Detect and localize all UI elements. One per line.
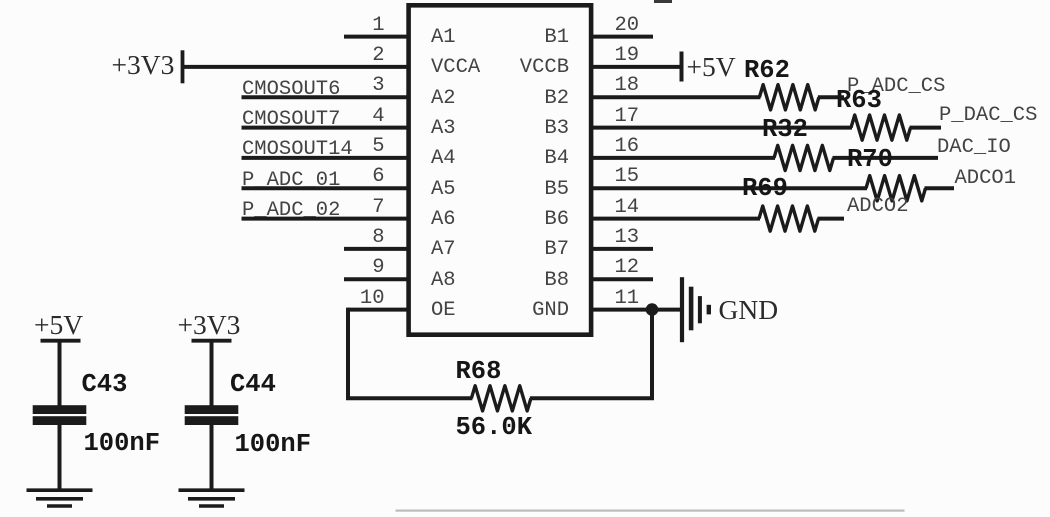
net label P_ADC_CS bbox=[847, 77, 945, 98]
wire pin 18 to R62 bbox=[591, 95, 760, 99]
pin number 3 bbox=[372, 76, 384, 97]
pin name A1 bbox=[431, 28, 456, 49]
wire pin 14 to resistor bbox=[591, 217, 760, 221]
power label +3V3 (pin 2) bbox=[112, 51, 175, 79]
wire C44 bottom bbox=[210, 425, 214, 491]
capacitor C43 bottom plate bbox=[33, 416, 87, 425]
pin number 8 bbox=[372, 228, 384, 249]
pin name A6 bbox=[431, 210, 456, 231]
net label P_ADC_02 bbox=[242, 201, 340, 222]
wire pin 3 net CMOSOUT6 bbox=[242, 95, 409, 99]
power bar above C43 bbox=[41, 339, 81, 343]
wire OE drop vertical bbox=[346, 308, 350, 399]
label C44 bbox=[230, 372, 276, 398]
resistor R63 (pin 17 line) bbox=[851, 115, 911, 140]
power bar above C44 bbox=[192, 339, 232, 343]
capacitor C43 top plate bbox=[33, 405, 87, 414]
net label ADCO2 bbox=[847, 197, 909, 218]
wire pin 8 bbox=[344, 247, 408, 251]
pin name B2 bbox=[544, 89, 569, 110]
ground symbol under C43 bbox=[27, 490, 93, 506]
ground symbol under C44 bbox=[179, 490, 245, 506]
wire pin 7 net P_ADC_02 bbox=[242, 217, 409, 221]
pin name A3 bbox=[431, 119, 456, 140]
wire pin 11 GND bbox=[591, 308, 681, 312]
pin name B5 bbox=[544, 180, 569, 201]
pin number 20 bbox=[615, 16, 640, 37]
wire pin 17 net P_DAC_CS bbox=[910, 126, 942, 130]
power +5V bar (pin 19) bbox=[680, 52, 684, 82]
capacitor C44 top plate bbox=[185, 405, 239, 414]
wire pin 6 net P_ADC_01 bbox=[242, 186, 409, 190]
pin number 16 bbox=[615, 137, 640, 158]
value 56.0K bbox=[456, 415, 533, 441]
label C43 bbox=[82, 372, 128, 398]
wire pin 18 net P_ADC_CS bbox=[818, 95, 844, 99]
pin name A4 bbox=[431, 149, 456, 170]
wire pin 17 to R63 bbox=[591, 126, 852, 130]
net label ADCO1 bbox=[955, 169, 1017, 190]
resistor R68 bbox=[471, 386, 531, 411]
ground GND symbol bar 4 bbox=[707, 305, 711, 315]
pin name A7 bbox=[431, 240, 456, 261]
pin name VCCB bbox=[520, 58, 569, 79]
wire pin 19 to +5V bbox=[591, 65, 682, 69]
ground GND symbol bar 2 bbox=[689, 287, 694, 331]
power label +5V (C43) bbox=[34, 311, 83, 339]
capacitor C44 bottom plate bbox=[185, 416, 239, 425]
wire R68 to pin 11 vertical bbox=[530, 396, 654, 400]
label R69 bbox=[742, 176, 788, 202]
pin name A5 bbox=[431, 180, 456, 201]
label R63 bbox=[836, 88, 882, 114]
wire pin 12 bbox=[591, 277, 653, 281]
wire up to pin 11 junction bbox=[650, 310, 654, 399]
power label +5V (pin 19) bbox=[687, 53, 736, 81]
wire C43 bottom bbox=[58, 425, 62, 491]
pin number 17 bbox=[615, 107, 640, 128]
wire pin 9 bbox=[344, 277, 408, 281]
pin number 9 bbox=[372, 258, 384, 279]
pin name A8 bbox=[431, 271, 456, 292]
pin number 11 bbox=[615, 289, 640, 310]
pin name B7 bbox=[544, 240, 569, 261]
power label +3V3 (C44) bbox=[178, 311, 241, 339]
pin number 7 bbox=[372, 198, 384, 219]
resistor R62 (pin 18 line) bbox=[759, 85, 819, 110]
power label GND bbox=[719, 296, 779, 324]
wire pin 16 to R70 bbox=[591, 156, 775, 160]
pin name GND bbox=[532, 301, 569, 322]
pin number 18 bbox=[615, 76, 640, 97]
pin name A2 bbox=[431, 89, 456, 110]
net label CMOSOUT14 bbox=[242, 140, 353, 161]
resistor on pin 14 line bbox=[759, 206, 819, 231]
pin name OE bbox=[431, 301, 456, 322]
wire pin 15 net ADCO1 bbox=[925, 186, 955, 190]
value 100nF (C44) bbox=[235, 432, 312, 458]
wire pin 20 bbox=[591, 35, 653, 39]
pin number 19 bbox=[615, 46, 640, 67]
label R70 bbox=[847, 147, 893, 173]
net label CMOSOUT6 bbox=[242, 80, 340, 101]
pin number 2 bbox=[372, 46, 384, 67]
pin number 12 bbox=[615, 258, 640, 279]
label R62 bbox=[744, 58, 790, 84]
label R32 bbox=[762, 117, 808, 143]
resistor R70 (pin 16 line) bbox=[774, 145, 834, 170]
ground GND symbol bar 3 bbox=[698, 296, 702, 323]
pin number 13 bbox=[615, 228, 640, 249]
wire pin 15 to R69 bbox=[591, 186, 867, 190]
pin name B6 bbox=[544, 210, 569, 231]
power +3V3 bar (pin 2) bbox=[181, 50, 185, 83]
op-amp/IC U1 level-shifter box bbox=[409, 5, 591, 334]
wire pin 10 OE horizontal bbox=[348, 308, 408, 312]
wire pin 4 net CMOSOUT7 bbox=[242, 126, 409, 130]
junction node at pin 11 bbox=[646, 303, 659, 316]
net label CMOSOUT7 bbox=[242, 110, 340, 131]
wire pin 16 net DAC_IO bbox=[833, 156, 939, 160]
wire pin 5 net CMOSOUT14 bbox=[242, 156, 409, 160]
faint frame line bottom bbox=[396, 510, 905, 512]
pin number 6 bbox=[372, 167, 384, 188]
pin name VCCA bbox=[431, 58, 480, 79]
wire OE bottom horizontal to R68 bbox=[346, 396, 472, 400]
wire pin 13 bbox=[591, 247, 653, 251]
wire pin 1 bbox=[344, 35, 408, 39]
pin number 1 bbox=[372, 16, 384, 37]
pin name B3 bbox=[544, 119, 569, 140]
net label P_ADC_01 bbox=[242, 171, 340, 192]
pin number 14 bbox=[615, 198, 640, 219]
pin name B4 bbox=[544, 149, 569, 170]
value 100nF (C43) bbox=[84, 431, 161, 457]
ground GND symbol bar 1 bbox=[680, 277, 684, 342]
wire C43 top bbox=[58, 341, 62, 407]
wire pin 2 from +3V3 to VCCA bbox=[183, 65, 409, 69]
pin number 10 bbox=[360, 289, 385, 310]
resistor R69 (pin 15 line) bbox=[866, 176, 926, 201]
pin number 5 bbox=[372, 137, 384, 158]
pin name B1 bbox=[544, 28, 569, 49]
pin number 4 bbox=[372, 107, 384, 128]
wire pin 14 net ADCO2 bbox=[818, 217, 845, 221]
net label P_DAC_CS bbox=[939, 106, 1037, 127]
pin name B8 bbox=[544, 271, 569, 292]
net label DAC_IO bbox=[937, 138, 1011, 159]
pin number 15 bbox=[615, 167, 640, 188]
wire C44 top bbox=[210, 341, 214, 407]
label R68 bbox=[456, 359, 502, 385]
cropped text remnant top bbox=[654, 0, 672, 3]
